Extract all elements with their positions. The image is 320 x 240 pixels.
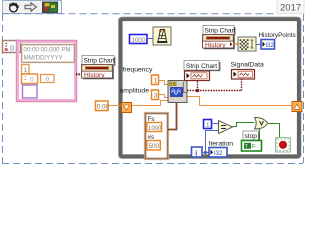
wire equal to or bbox=[233, 123, 255, 127]
waveform array frame bbox=[16, 40, 77, 102]
svg-text:0.00: 0.00 bbox=[97, 104, 110, 111]
wire 0.00 to left shift register bbox=[108, 105, 122, 107]
Strip Chart terminal label bbox=[184, 61, 220, 71]
Iteration I32 indicator terminal bbox=[209, 148, 227, 158]
toolbar diagram icon bbox=[43, 2, 58, 13]
wire amplitude bbox=[159, 95, 169, 98]
wait until next ms multiple bbox=[153, 27, 171, 45]
stop label bbox=[243, 131, 259, 141]
svg-text:Iteration: Iteration bbox=[209, 141, 234, 148]
Fs value 1000 bbox=[147, 123, 162, 132]
svg-text:SignalData: SignalData bbox=[231, 62, 264, 69]
numeric constant 0.00 bbox=[96, 101, 110, 111]
stop boolean terminal bbox=[242, 141, 262, 152]
toolbar bbox=[3, 1, 62, 14]
svg-text:1: 1 bbox=[154, 78, 158, 85]
svg-text:frequency: frequency bbox=[123, 67, 153, 74]
array size node bbox=[238, 37, 256, 51]
property node Strip Chart (write History) bbox=[82, 65, 114, 80]
constant 1 (compare) bbox=[204, 120, 212, 130]
svg-text:History: History bbox=[84, 72, 105, 79]
wire phase in from shift register bbox=[132, 101, 169, 106]
svg-text:Strip Chart: Strip Chart bbox=[84, 58, 115, 65]
svg-text:1000: 1000 bbox=[148, 126, 162, 132]
i iteration terminal bbox=[192, 147, 203, 157]
svg-text:I32: I32 bbox=[214, 151, 223, 157]
attributes variant constant bbox=[23, 85, 38, 98]
equal? function bbox=[219, 121, 233, 134]
svg-text:0: 0 bbox=[10, 45, 14, 52]
svg-text:0: 0 bbox=[30, 77, 34, 84]
svg-text:Strip Chart: Strip Chart bbox=[205, 27, 236, 34]
junction bbox=[196, 89, 200, 93]
left shift register bbox=[122, 103, 132, 113]
frequency constant 1 bbox=[152, 75, 159, 85]
#s value 500 bbox=[147, 141, 161, 151]
dt constant 1 bbox=[22, 65, 30, 75]
svg-text:00:00:00.000 PM: 00:00:00.000 PM bbox=[24, 47, 71, 54]
numeric constant 1000 (ms) bbox=[130, 35, 148, 45]
or function bbox=[255, 118, 269, 130]
Strip Chart chart terminal bbox=[185, 71, 210, 81]
wire to SignalData terminal bbox=[241, 79, 243, 91]
svg-text:i: i bbox=[195, 148, 197, 157]
sine waveform VI bbox=[168, 81, 187, 103]
right shift register bbox=[292, 102, 302, 112]
svg-text:I32: I32 bbox=[266, 43, 275, 49]
wire stop to or bbox=[259, 128, 261, 140]
wire to Strip Chart terminal bbox=[197, 81, 199, 91]
HistoryPoints I32 indicator terminal bbox=[261, 40, 275, 50]
Y array element 0 bbox=[41, 75, 55, 84]
wire array size to HistoryPoints bbox=[256, 44, 261, 46]
toolbar pan-hand icon bbox=[10, 3, 19, 12]
cluster wire to VI sampling info bbox=[168, 103, 177, 130]
write arrow into History bbox=[76, 73, 81, 76]
svg-text:3: 3 bbox=[154, 93, 158, 100]
Strip Chart label (top property node) bbox=[203, 26, 236, 36]
Strip Chart label (left property node) bbox=[82, 56, 115, 66]
svg-text:Strip Chart: Strip Chart bbox=[186, 63, 217, 70]
wire phase out to right shift register bbox=[187, 97, 292, 106]
junction bbox=[204, 151, 207, 154]
svg-text:0: 0 bbox=[46, 76, 50, 83]
selection marquee right bbox=[303, 14, 305, 163]
Fs sampling cluster frame bbox=[144, 112, 168, 159]
wire 1 to equal bbox=[212, 123, 219, 125]
svg-text:1: 1 bbox=[206, 122, 210, 129]
selection marquee top bbox=[3, 13, 277, 15]
svg-text:MM/DD/YYYY: MM/DD/YYYY bbox=[24, 55, 63, 62]
waveform wire out bbox=[187, 90, 242, 92]
while loop bbox=[118, 17, 301, 159]
svg-text:T: T bbox=[245, 144, 249, 150]
wire i to Iteration bbox=[202, 152, 209, 154]
wire 1000 to wait bbox=[147, 38, 153, 40]
wire frequency bbox=[159, 81, 169, 85]
svg-text:F: F bbox=[252, 144, 256, 150]
wire history to array size bbox=[234, 43, 239, 45]
Y array index bbox=[22, 74, 38, 84]
selection marquee bottom bbox=[2, 163, 303, 165]
timestamp constant t0 bbox=[22, 45, 75, 63]
svg-text:HistoryPoints: HistoryPoints bbox=[259, 32, 296, 39]
svg-text:2017: 2017 bbox=[280, 3, 301, 14]
svg-text:History: History bbox=[205, 42, 226, 49]
svg-text:500: 500 bbox=[149, 143, 160, 150]
svg-text:1: 1 bbox=[24, 67, 28, 74]
toolbar arrow icon bbox=[25, 3, 37, 11]
2017 box bbox=[277, 0, 304, 14]
wire or to conditional terminal bbox=[268, 124, 280, 139]
svg-text:amplitude: amplitude bbox=[120, 88, 150, 95]
wire i to equal bbox=[206, 131, 219, 153]
property node Strip Chart (read History) bbox=[203, 35, 235, 50]
amplitude constant 3 bbox=[152, 90, 159, 100]
loop conditional terminal bbox=[276, 138, 291, 153]
selection marquee left bbox=[2, 14, 4, 163]
svg-text:stop: stop bbox=[245, 133, 258, 140]
SignalData terminal bbox=[232, 70, 255, 80]
array index 0 bbox=[3, 41, 21, 53]
svg-text:1000: 1000 bbox=[132, 37, 147, 44]
